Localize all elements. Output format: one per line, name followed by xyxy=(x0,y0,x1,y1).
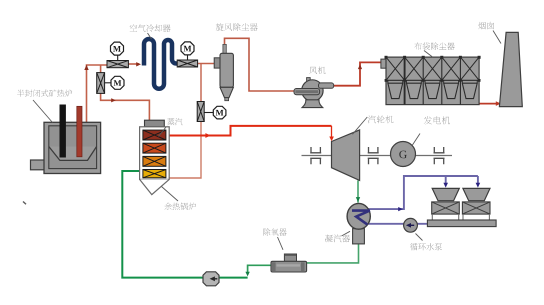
arrow up on fan-filter riser xyxy=(358,64,362,69)
arrow down turbine exhaust xyxy=(356,197,360,202)
wire: turbine exhaust to condenser xyxy=(357,180,359,202)
leader furnace xyxy=(33,100,53,123)
boiler bank 4 xyxy=(143,170,166,178)
wire: fan outlet to bag filter xyxy=(334,62,382,85)
text label 半封闭式矿热炉 xyxy=(17,90,72,97)
valve V3 bypass xyxy=(97,73,105,94)
motor M1 xyxy=(111,42,124,60)
wire: boiler gas outlet up to cyclone feed junction xyxy=(168,121,201,178)
valve V1 cooler inlet xyxy=(107,61,128,68)
wire: cyclone top to fan inlet xyxy=(225,38,296,91)
arrow right cooling supply corner xyxy=(398,207,403,211)
fan xyxy=(294,78,334,108)
steam turbine xyxy=(332,130,360,181)
bearing B1 xyxy=(310,147,321,164)
leader chimney xyxy=(493,31,501,44)
motor M3 xyxy=(181,42,194,60)
deaerator xyxy=(271,254,307,272)
arrow right on steam line xyxy=(205,133,210,138)
labels (vectorized CJK) xyxy=(17,22,494,251)
leader bag filter xyxy=(424,51,433,58)
arrow right on bypass xyxy=(111,98,116,102)
tower basin xyxy=(427,220,496,227)
text label 烟囱 xyxy=(478,22,494,30)
motor M2 xyxy=(105,76,124,89)
boiler bank 3 xyxy=(143,156,166,166)
text label 风机 xyxy=(309,67,325,75)
wire: tower branch 1 xyxy=(445,176,447,185)
bag filter mid joints xyxy=(385,79,481,82)
arrow right into cooler xyxy=(136,62,141,66)
electrode red xyxy=(77,106,82,157)
arrow up furnace riser xyxy=(84,65,88,70)
leader generator xyxy=(412,134,420,146)
text label 发电机 xyxy=(424,116,450,124)
wire: bypass drop through valve to boiler top xyxy=(101,65,150,121)
text label 蒸汽 xyxy=(167,118,182,125)
bag filter hoppers xyxy=(388,80,477,98)
valve V2 cooler outlet xyxy=(177,60,197,67)
leader boiler xyxy=(162,187,179,202)
arrow right into chimney xyxy=(496,101,501,106)
arrow down tower branch 2 xyxy=(476,183,481,188)
text label 空气冷却器 xyxy=(130,24,171,32)
boiler bank 1 xyxy=(143,130,166,140)
wire: condensate condenser to deaerator xyxy=(306,244,359,263)
text label 布袋除尘器 xyxy=(414,42,455,50)
arrow down into turbine xyxy=(329,137,334,142)
wire: furnace flue gas riser to junction xyxy=(87,65,108,122)
leader air cooler xyxy=(148,33,152,39)
leader circ pump xyxy=(416,234,423,241)
cooling tower 1 cell xyxy=(432,202,460,214)
text label 循环水泵 xyxy=(410,243,442,250)
electrode black xyxy=(60,105,66,158)
wire: tower branch 2 xyxy=(477,176,479,185)
wire: feedwater run through pump up to boiler xyxy=(122,171,247,278)
text label 旋风除尘器 xyxy=(216,23,258,31)
wire: tower basin through circ pump to condenser xyxy=(368,223,428,225)
feedwater pump xyxy=(203,272,219,286)
bearing B2 xyxy=(368,147,379,164)
chimney xyxy=(499,32,522,106)
leader condenser xyxy=(342,231,351,236)
tower legs xyxy=(432,214,489,220)
circulating water pump xyxy=(404,218,418,232)
bag filter xyxy=(381,57,479,105)
wire: cooler outlet to cyclone inlet xyxy=(198,63,215,65)
arrow down feedwater step xyxy=(245,272,249,277)
bearing B3 xyxy=(434,147,445,164)
motor M4 xyxy=(204,106,226,119)
boiler bank 2 xyxy=(143,143,166,153)
cooling tower 2 cell xyxy=(462,202,490,214)
text label 汽轮机 xyxy=(368,116,394,124)
text label 除氧器 xyxy=(263,228,286,236)
arrow down tower branch 1 xyxy=(443,183,448,188)
cyclone separator xyxy=(214,44,233,100)
air cooler coil xyxy=(144,39,177,89)
wire: condenser cooling outlet riser to towers xyxy=(369,176,478,209)
generator G xyxy=(391,142,416,167)
bag filter top knobs xyxy=(385,56,481,59)
wire: junction to air cooler inlet xyxy=(128,63,139,65)
text label 余热锅炉 xyxy=(164,203,196,210)
furnace body xyxy=(31,122,101,173)
wire: deaerator outlet down-step xyxy=(248,265,272,274)
turbine shaft xyxy=(302,155,453,157)
wire: steam line boiler to turbine xyxy=(168,126,332,136)
waste heat boiler xyxy=(140,120,170,194)
wire: bag filter outlet to chimney xyxy=(479,103,498,105)
text label 凝汽器 xyxy=(325,235,350,243)
condenser xyxy=(347,203,370,244)
cooling tower 1 fan hood xyxy=(432,188,459,200)
bag filter X-braces xyxy=(386,57,479,80)
leader turbine xyxy=(353,117,368,134)
cooling tower 2 fan hood xyxy=(463,188,490,200)
leader deaerator xyxy=(278,237,284,250)
stray dash mark xyxy=(23,202,26,205)
leader steam xyxy=(159,127,167,137)
valve V4 boiler gas xyxy=(197,102,204,122)
